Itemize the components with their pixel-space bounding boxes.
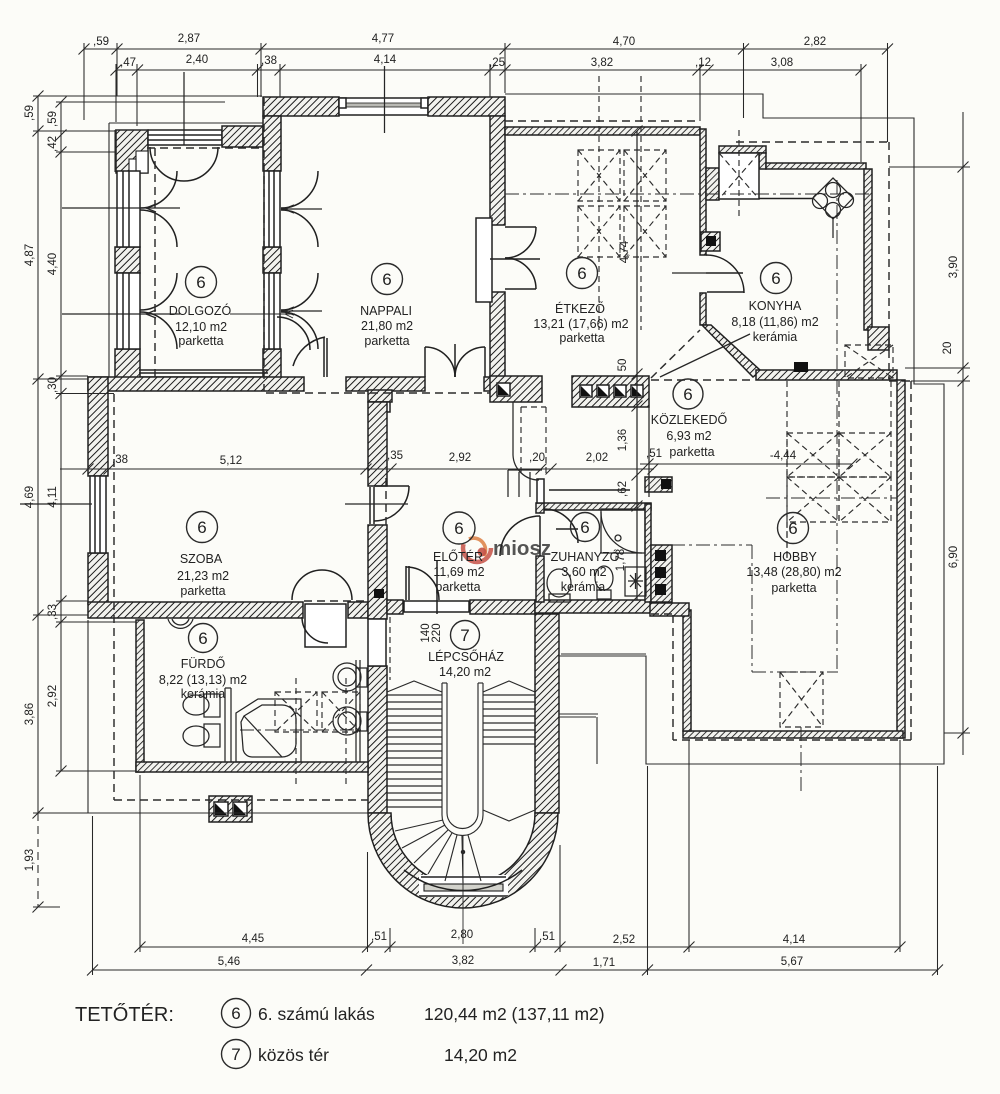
svg-text:5,12: 5,12 xyxy=(220,455,242,467)
legend xyxy=(75,999,605,1069)
wall: DOLGOZÓ top wall left segment xyxy=(116,130,148,173)
extension lines right xyxy=(889,167,970,733)
skylight dashed squares ÉTKEZŐ xyxy=(275,76,893,788)
svg-text:13,21 (17,66) m2: 13,21 (17,66) m2 xyxy=(533,317,628,331)
window axis marks xyxy=(62,207,180,209)
label ÉTKEZŐ xyxy=(567,258,598,289)
stair central void xyxy=(442,683,483,815)
wall: DOLGOZÓ/NAPPALI shared wall segments xyxy=(263,116,281,171)
wall: SZOBA bottom wall xyxy=(88,602,303,618)
svg-text:parketta: parketta xyxy=(669,445,714,459)
wall: ÉTKEZŐ top wall xyxy=(505,127,700,135)
svg-text:120,44 m2 (137,11 m2): 120,44 m2 (137,11 m2) xyxy=(424,1004,605,1024)
svg-text:kerámia: kerámia xyxy=(753,330,798,344)
svg-text:parketta: parketta xyxy=(435,580,480,594)
divider FÜRDŐ xyxy=(225,688,231,762)
label NAPPALI xyxy=(372,264,403,295)
svg-text:2,80: 2,80 xyxy=(451,929,473,941)
svg-text:parketta: parketta xyxy=(180,584,225,598)
label ZUHANYZÓ xyxy=(571,513,600,542)
svg-text:6: 6 xyxy=(580,518,589,537)
svg-text:8,22 (13,13) m2: 8,22 (13,13) m2 xyxy=(159,673,247,687)
bold dashed rooflines xyxy=(114,98,911,800)
svg-text:4,14: 4,14 xyxy=(374,54,397,66)
wall: ZUHANYZÓ bottom wall xyxy=(535,600,651,613)
fixtures and details xyxy=(20,66,854,944)
svg-text:21,80 m2: 21,80 m2 xyxy=(361,319,413,333)
wall: HOBBY bottom wall xyxy=(683,731,903,738)
svg-text:,59: ,59 xyxy=(24,105,36,121)
extension lines top xyxy=(84,43,888,142)
door D4 SZOBA to ELŐTÉR xyxy=(370,486,409,524)
svg-text:-4,44: -4,44 xyxy=(770,450,797,462)
gas hob diamond KONYHA xyxy=(813,178,853,219)
wall: NAPPALI top wall right segment xyxy=(428,97,505,116)
svg-text:14,20 m2: 14,20 m2 xyxy=(444,1045,517,1065)
svg-text:3,08: 3,08 xyxy=(771,57,793,69)
washbasin ZUHANYZÓ xyxy=(625,567,646,596)
svg-text:6: 6 xyxy=(771,269,780,288)
door arcs into NAPPALI upper xyxy=(281,171,318,208)
washbasins FÜRDŐ right xyxy=(333,663,361,691)
dim top row 1 xyxy=(84,48,888,50)
svg-text:,12: ,12 xyxy=(695,57,711,69)
svg-text:6: 6 xyxy=(683,385,692,404)
svg-text:LÉPCSŐHÁZ: LÉPCSŐHÁZ xyxy=(428,649,504,664)
wall: stairs left wall / ELŐTÉR west wall xyxy=(368,390,392,402)
svg-text:2,82: 2,82 xyxy=(804,36,826,48)
label DOLGOZÓ xyxy=(186,267,217,298)
svg-text:SZOBA: SZOBA xyxy=(180,552,223,566)
svg-text:2,40: 2,40 xyxy=(186,54,208,66)
svg-text:ELŐTÉR: ELŐTÉR xyxy=(433,549,483,564)
svg-text:4,45: 4,45 xyxy=(242,933,264,945)
svg-text:4,77: 4,77 xyxy=(372,33,394,45)
svg-text:6,93 m2: 6,93 m2 xyxy=(666,429,711,443)
chimney block ÉTKEZŐ right xyxy=(701,232,720,251)
svg-text:220: 220 xyxy=(431,623,443,642)
svg-text:1,93: 1,93 xyxy=(24,849,36,871)
svg-text:,30: ,30 xyxy=(47,377,59,393)
svg-text:HOBBY: HOBBY xyxy=(773,550,817,564)
dim line KÖZLEKEDŐ/HOBBY xyxy=(640,463,852,465)
label HOBBY xyxy=(778,513,809,544)
door D5 double door to LÉPCSŐHÁZ xyxy=(406,560,439,614)
svg-text:6: 6 xyxy=(196,273,205,292)
legend row apartment 6 xyxy=(222,999,251,1028)
svg-text:8,18 (11,86) m2: 8,18 (11,86) m2 xyxy=(731,315,818,329)
dim top row 2 xyxy=(116,69,861,71)
door arcs into NAPPALI lower xyxy=(281,273,318,310)
svg-text:parketta: parketta xyxy=(178,334,223,348)
svg-text:parketta: parketta xyxy=(559,331,604,345)
KONYHA label leader xyxy=(660,334,750,377)
svg-text:21,23 m2: 21,23 m2 xyxy=(177,569,229,583)
toilet FÜRDŐ xyxy=(204,694,220,717)
label LÉPCSŐHÁZ xyxy=(451,621,480,650)
dim bottom row 1 xyxy=(140,946,900,948)
window W6 shared wall lower xyxy=(264,273,280,349)
wall: KONYHA corner block xyxy=(868,327,889,350)
dimension lines xyxy=(33,43,971,976)
svg-text:7: 7 xyxy=(460,626,469,645)
svg-text:DOLGOZÓ: DOLGOZÓ xyxy=(169,303,232,318)
svg-text:kerámia: kerámia xyxy=(181,687,226,701)
svg-text:3,82: 3,82 xyxy=(452,955,474,967)
wall: DOLGOZÓ top wall right segment xyxy=(222,126,263,147)
svg-text:13,48 (28,80) m2: 13,48 (28,80) m2 xyxy=(746,565,841,579)
dim left column 2 xyxy=(60,102,62,771)
wall: ELŐTÉR bottom wall with stair door xyxy=(387,600,403,614)
french door NAPPALI to ÉTKEZŐ xyxy=(476,218,540,302)
wall: SZOBA left wall xyxy=(88,377,108,476)
skylight dashed square KONYHA bottom xyxy=(845,345,893,378)
svg-text:4,87: 4,87 xyxy=(24,244,36,266)
legend row common 7 xyxy=(222,1040,251,1069)
label ELŐTÉR xyxy=(443,512,475,544)
wall: corner block ELŐTÉR top right with flue xyxy=(490,376,542,402)
wall: DOLGOZÓ left wall segments xyxy=(115,247,140,273)
label FÜRDŐ xyxy=(189,624,218,653)
svg-text:6: 6 xyxy=(454,519,463,538)
skylight X KONYHA cupboard xyxy=(719,153,759,199)
window W3 DOLGOZÓ left wall lower casements xyxy=(117,273,140,349)
toilet ZUHANYZÓ xyxy=(547,569,571,597)
stair steps left flight xyxy=(387,695,442,807)
svg-text:KONYHA: KONYHA xyxy=(749,299,802,313)
svg-text:,38: ,38 xyxy=(112,454,128,466)
wall: ZUHANYZÓ right wall with flues xyxy=(645,504,651,602)
svg-text:TETŐTÉR:: TETŐTÉR: xyxy=(75,1003,174,1026)
wall: ÉTKEZŐ right wall + door D7 to KONYHA xyxy=(700,129,706,255)
window W5 shared wall upper xyxy=(264,171,280,247)
wall: HOBBY right wall xyxy=(897,380,905,738)
roof eave outline thin lines xyxy=(88,94,944,813)
svg-text:4,69: 4,69 xyxy=(24,486,36,508)
svg-text:6: 6 xyxy=(231,1004,240,1023)
window W2 DOLGOZÓ left wall upper casements xyxy=(117,171,140,247)
door D2 NAPPALI double door to ELŐTÉR xyxy=(425,344,485,377)
label KONYHA xyxy=(761,263,792,294)
window W7 SZOBA left wall xyxy=(90,476,106,553)
wall: WC block with flues xyxy=(572,376,649,407)
svg-text:12,10 m2: 12,10 m2 xyxy=(175,320,227,334)
wall: NAPPALI right wall lower xyxy=(490,292,505,377)
svg-text:1,36: 1,36 xyxy=(617,429,629,451)
wall: diagonal wall ÉTKEZŐ to HOBBY xyxy=(702,325,761,377)
dash-dot reference lines xyxy=(240,180,897,792)
wall: KONYHA counter right band xyxy=(864,169,872,330)
svg-text:,62: ,62 xyxy=(617,481,629,497)
dim room line SZOBA/ELŐTÉR xyxy=(60,468,654,470)
svg-text:kerámia: kerámia xyxy=(561,580,606,594)
svg-text:6: 6 xyxy=(197,518,206,537)
door arcs DOLGOZÓ left lower xyxy=(140,273,177,310)
svg-text:FÜRDŐ: FÜRDŐ xyxy=(181,656,226,671)
wall: stairs right wall xyxy=(535,614,559,813)
wall: HOBBY top wall xyxy=(756,370,897,380)
label SZOBA xyxy=(187,512,218,543)
svg-text:,51: ,51 xyxy=(646,448,662,460)
svg-text:KÖZLEKEDŐ: KÖZLEKEDŐ xyxy=(651,412,728,427)
wall: ZUHANYZÓ top wall xyxy=(537,503,651,510)
door D3 FÜRDŐ entry xyxy=(292,570,352,647)
door D1 into NAPPALI (single) xyxy=(277,317,327,377)
svg-text:ÉTKEZŐ: ÉTKEZŐ xyxy=(555,301,605,316)
stair break chevrons xyxy=(387,681,442,692)
wall: ZUHANYZÓ left wall + door D6 xyxy=(536,503,544,513)
corner bathtub FÜRDŐ xyxy=(236,699,301,762)
svg-text:,20: ,20 xyxy=(529,452,545,464)
svg-text:2,92: 2,92 xyxy=(449,452,471,464)
wall: KONYHA counter top band xyxy=(766,163,866,169)
window lining DOLGOZÓ south xyxy=(139,370,280,389)
svg-text:4,40: 4,40 xyxy=(47,253,59,275)
svg-text:6: 6 xyxy=(198,629,207,648)
dim left column 1 xyxy=(37,96,39,813)
staircase window at bottom xyxy=(404,870,522,897)
svg-text:,38: ,38 xyxy=(261,55,277,67)
stair radial steps xyxy=(395,820,481,883)
svg-text:,51: ,51 xyxy=(539,931,555,943)
staircase interior xyxy=(387,681,535,883)
svg-text:parketta: parketta xyxy=(771,581,816,595)
stair steps right flight xyxy=(483,695,535,744)
svg-text:3,82: 3,82 xyxy=(591,57,613,69)
extension lines bottom xyxy=(93,740,938,975)
wall: KONYHA corner cupboard xyxy=(719,146,766,153)
svg-text:,59: ,59 xyxy=(93,36,109,48)
door arcs DOLGOZÓ left upper xyxy=(140,171,177,208)
svg-text:,42: ,42 xyxy=(47,136,59,152)
svg-text:,33: ,33 xyxy=(47,604,59,620)
svg-text:5,67: 5,67 xyxy=(781,956,803,968)
svg-text:2,87: 2,87 xyxy=(178,33,200,45)
svg-text:közös tér: közös tér xyxy=(258,1045,329,1065)
svg-text:14,20 m2: 14,20 m2 xyxy=(439,665,491,679)
door leaf line KONYHA xyxy=(672,272,706,274)
svg-text:50: 50 xyxy=(617,359,629,372)
svg-text:2,92: 2,92 xyxy=(47,685,59,707)
window W4 NAPPALI top wall xyxy=(339,98,428,115)
washbasin FÜRDŐ top xyxy=(168,619,193,628)
svg-text:7: 7 xyxy=(231,1045,240,1064)
wall: FÜRDŐ left thin wall xyxy=(136,620,144,772)
svg-text:,59: ,59 xyxy=(47,111,59,127)
skylight dashed square HOBBY bottom xyxy=(780,672,823,727)
wall: FÜRDŐ bottom thin wall xyxy=(136,762,368,772)
svg-text:6: 6 xyxy=(382,270,391,289)
watermark mios logo xyxy=(463,534,551,562)
window W1 in DOLGOZÓ top wall xyxy=(148,130,222,145)
svg-text:3,60 m2: 3,60 m2 xyxy=(561,565,606,579)
svg-text:parketta: parketta xyxy=(364,334,409,348)
svg-text:4,74: 4,74 xyxy=(619,240,631,263)
svg-text:4,14: 4,14 xyxy=(783,934,806,946)
svg-text:,25: ,25 xyxy=(489,57,505,69)
svg-text:6,90: 6,90 xyxy=(948,546,960,568)
svg-text:,47: ,47 xyxy=(120,57,136,69)
svg-text:3,86: 3,86 xyxy=(24,703,36,725)
svg-text:20: 20 xyxy=(942,342,954,355)
dim vertical chain ticks xyxy=(632,126,643,603)
svg-text:3,90: 3,90 xyxy=(948,256,960,278)
svg-text:11,69 m2: 11,69 m2 xyxy=(433,565,484,579)
svg-text:2,52: 2,52 xyxy=(613,934,635,946)
svg-text:2,02: 2,02 xyxy=(586,452,608,464)
bidet FÜRDŐ xyxy=(204,724,220,747)
wall: NAPPALI top wall left segment xyxy=(263,97,339,116)
extension lines left xyxy=(33,96,262,907)
svg-text:4,70: 4,70 xyxy=(613,36,635,48)
svg-text:6: 6 xyxy=(577,264,586,283)
svg-text:ZUHANYZÓ: ZUHANYZÓ xyxy=(551,549,620,564)
svg-text:6: 6 xyxy=(788,519,797,538)
dim bottom row 2 xyxy=(93,969,938,971)
skylight dashed squares FÜRDŐ xyxy=(275,692,317,732)
svg-text:,35: ,35 xyxy=(387,450,403,462)
svg-text:6. számú lakás: 6. számú lakás xyxy=(258,1004,375,1024)
svg-text:,51: ,51 xyxy=(371,931,387,943)
room labels xyxy=(159,258,842,702)
wall: SZOBA top / NAPPALI bottom wall band xyxy=(88,377,304,391)
shower tray ZUHANYZÓ xyxy=(601,509,645,553)
svg-text:1,71: 1,71 xyxy=(593,957,615,969)
step ÉTKEZŐ to corridor xyxy=(508,470,542,497)
svg-text:NAPPALI: NAPPALI xyxy=(360,304,412,318)
corridor dashed rect xyxy=(520,407,522,475)
door arcs DOLGOZÓ top window xyxy=(150,147,184,181)
wall: NAPPALI right wall upper xyxy=(490,116,505,225)
label KÖZLEKEDŐ xyxy=(673,379,703,409)
wall: HOBBY lower-left wall xyxy=(683,610,691,731)
staircase outer curved wall xyxy=(368,813,558,908)
svg-text:5,46: 5,46 xyxy=(218,956,240,968)
skylight dashed squares HOBBY xyxy=(787,433,839,477)
svg-text:4,11: 4,11 xyxy=(47,486,59,508)
chimney block bottom xyxy=(209,796,252,822)
dim right column xyxy=(962,112,964,755)
